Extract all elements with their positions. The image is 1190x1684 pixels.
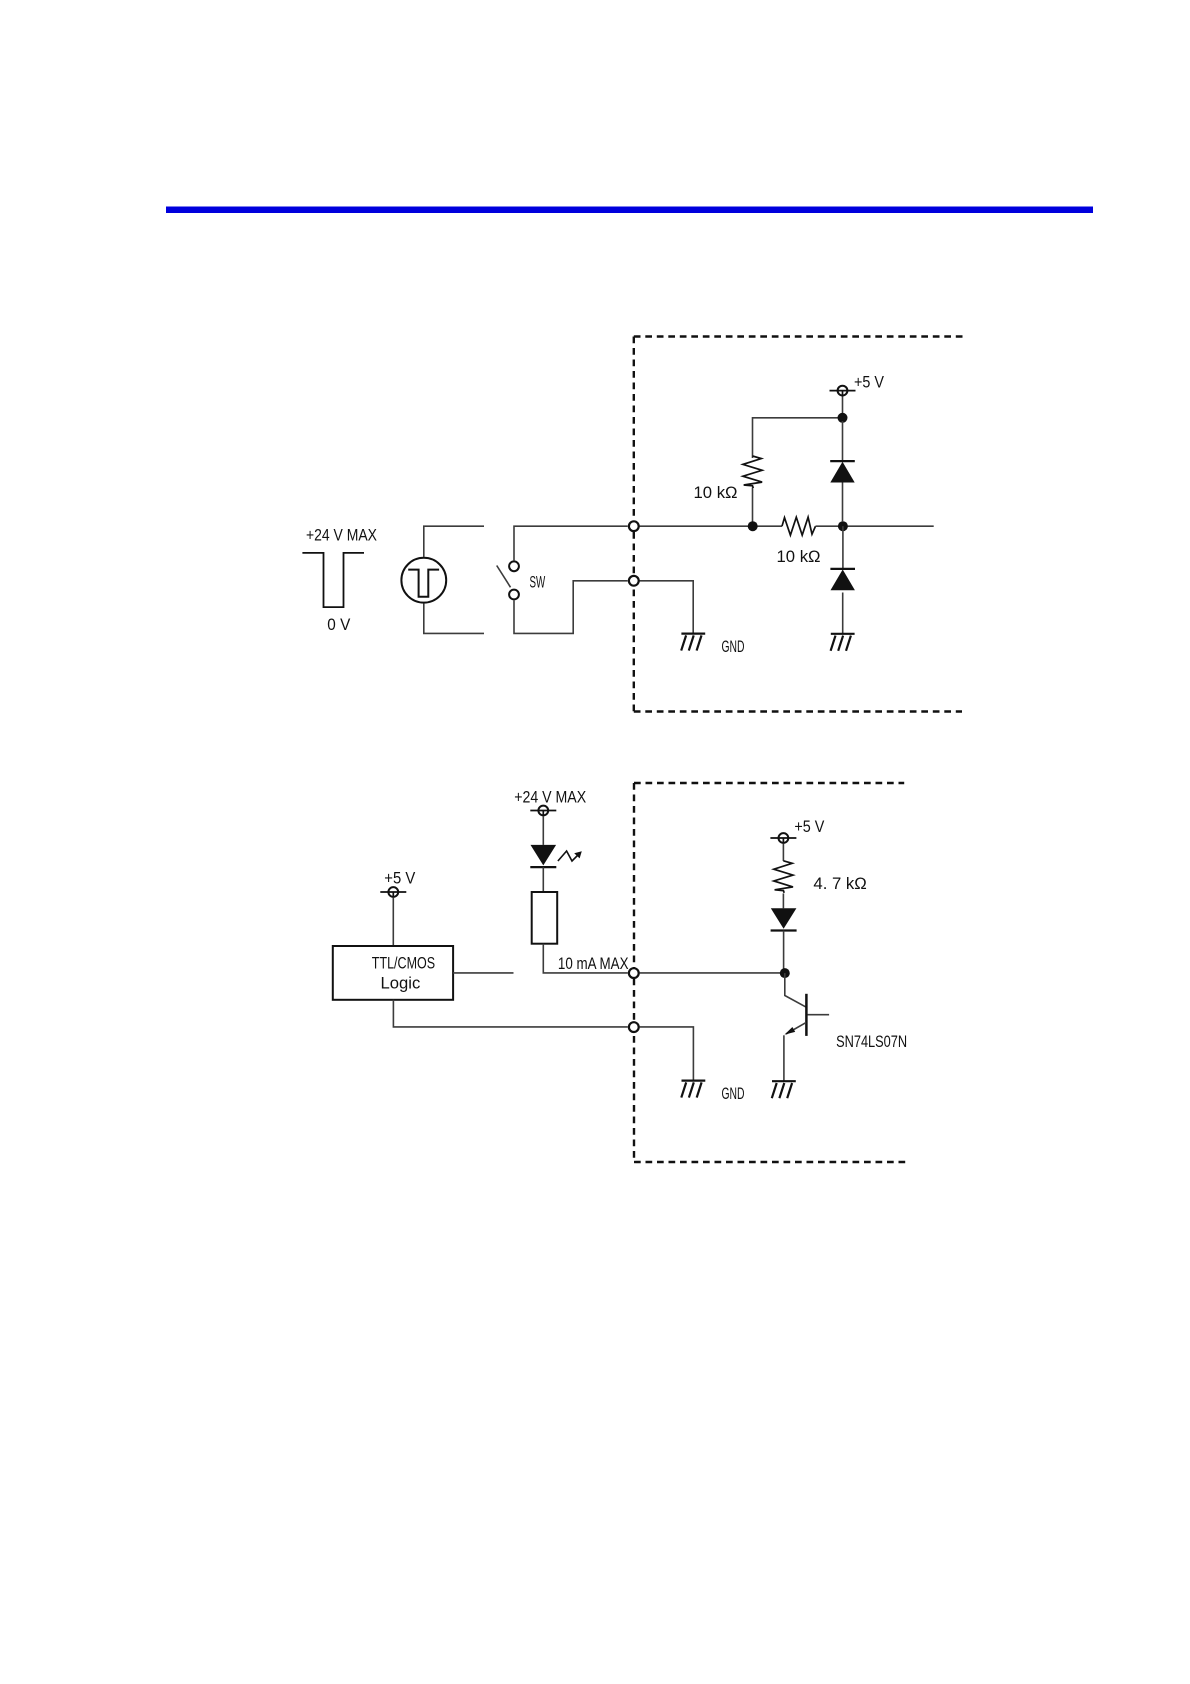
svg-text:4. 7 kΩ: 4. 7 kΩ	[813, 874, 866, 893]
svg-text:GND: GND	[722, 1084, 745, 1103]
svg-text:SN74LS07N: SN74LS07N	[836, 1032, 907, 1051]
svg-text:+24 V MAX: +24 V MAX	[514, 788, 586, 807]
svg-text:10 kΩ: 10 kΩ	[694, 483, 738, 502]
svg-text:0 V: 0 V	[327, 615, 351, 634]
svg-text:10 mA MAX: 10 mA MAX	[558, 954, 629, 973]
svg-text:+5 V: +5 V	[854, 372, 885, 391]
svg-text:+5 V: +5 V	[794, 817, 825, 836]
svg-text:GND: GND	[722, 637, 745, 656]
svg-text:+5 V: +5 V	[384, 868, 416, 887]
svg-text:10 kΩ: 10 kΩ	[777, 547, 821, 566]
svg-text:Logic: Logic	[381, 974, 421, 993]
svg-text:+24 V MAX: +24 V MAX	[306, 526, 377, 545]
svg-text:TTL/CMOS: TTL/CMOS	[372, 953, 435, 972]
svg-text:SW: SW	[530, 572, 546, 591]
